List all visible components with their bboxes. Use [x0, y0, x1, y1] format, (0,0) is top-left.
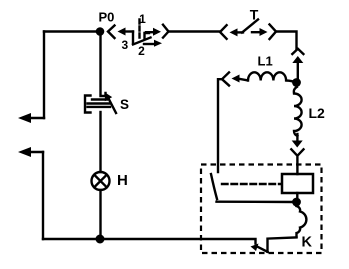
relay coil K (curly winding) [297, 206, 307, 237]
selector switch: pole bend down (position 3 branch) [132, 32, 134, 44]
label 3 [121, 38, 128, 52]
svg-text:L2: L2 [309, 105, 326, 121]
wire corner left of L1 down to relay contact [218, 79, 222, 172]
connector pair above relay: arrow down (from above) [292, 134, 303, 148]
switch T: blade diagonal [242, 20, 258, 33]
switch S top plate [92, 98, 107, 100]
lamp H (circle with cross) [92, 172, 110, 190]
svg-text:K: K [302, 235, 313, 251]
label P0 [99, 10, 115, 25]
node P0 (junction dot) [96, 27, 105, 36]
wire top-left horizontal from left rail to node P0 [44, 30, 96, 32]
supply arrow terminal (lower left) [18, 147, 43, 157]
switch S bimetal strip (double line) [88, 104, 111, 107]
node below relay coil box [292, 198, 301, 207]
svg-text:1: 1 [139, 12, 146, 26]
connector pair top of coil branch: chevron (from above) [292, 49, 303, 54]
wire relay coil box bottom to node [296, 193, 298, 198]
switch T: fixed contact chevron right [270, 25, 277, 40]
wire left rail lower (arrow down to bottom wire) [42, 152, 44, 239]
label L2 [309, 105, 326, 121]
label L1 [258, 54, 273, 69]
switch T: moving contact arrow left [230, 28, 244, 36]
inductor L2 (vertical coil) [294, 87, 302, 136]
svg-text:L1: L1 [258, 54, 273, 69]
switch S blade with actuation arrow [105, 93, 116, 114]
label K [302, 235, 313, 251]
selector switch: connector to right with arrow toward contact [145, 28, 162, 39]
wire lamp branch lower (lamp H down to bottom junction) [99, 190, 101, 236]
relay coil box (rectangle) [282, 174, 313, 193]
relay K dashed enclosure [201, 165, 322, 254]
wire bottom horizontal [43, 239, 256, 244]
wire lamp branch upper (P0 down to switch S) [101, 36, 106, 97]
switch T: moving contact arrow right [252, 28, 268, 36]
wire relay contact horizontal to node [217, 200, 294, 203]
switch S (thermal contact): housing bracket [85, 96, 91, 113]
node junction L1/L2 [292, 78, 301, 87]
svg-text:T: T [250, 7, 259, 23]
wire selector to switch T [169, 30, 220, 32]
label 1 [139, 12, 146, 26]
selector switch: fixed contact chevron left [108, 26, 115, 39]
supply arrow terminal (upper left) [18, 113, 44, 123]
svg-text:P0: P0 [99, 10, 115, 25]
dashed mechanical link blade to coil [222, 183, 281, 185]
selector switch: fixed contact chevron right [163, 25, 169, 38]
inductor L1 (horizontal coil) [239, 72, 295, 82]
label T [250, 7, 259, 23]
wire lamp branch middle (switch S down to lamp H) [99, 112, 101, 172]
wire coil bottom horizontal [268, 237, 297, 251]
label 2 [138, 44, 145, 58]
svg-text:3: 3 [121, 38, 128, 52]
node bottom junction (lamp branch meets bottom wire) [96, 235, 105, 244]
switch T: fixed contact chevron left [220, 25, 227, 39]
connector pair top of coil branch: arrow up (from below) [292, 56, 303, 79]
selector switch: position 1 dashed line [138, 20, 140, 41]
svg-text:2: 2 [138, 44, 145, 58]
svg-text:S: S [120, 97, 129, 112]
inductor L1 moving contact arrow left [232, 75, 240, 83]
label H [117, 172, 128, 189]
inductor L1 fixed contact chevron [222, 72, 229, 85]
selector switch: blade diagonal [133, 38, 151, 45]
wire T to right corner and down [276, 32, 297, 50]
label S [120, 97, 129, 112]
svg-text:H: H [117, 172, 128, 189]
selector switch: position 2 direction arrow [144, 40, 162, 47]
connector pair above relay: chevron (from below) [291, 149, 303, 174]
bottom connector: blade with arrow [251, 244, 268, 252]
selector switch: moving contact arrow toward position 3 [118, 28, 134, 36]
relay contact blade [211, 174, 217, 199]
wire left rail upper (P0 down to supply arrow) [43, 32, 45, 119]
